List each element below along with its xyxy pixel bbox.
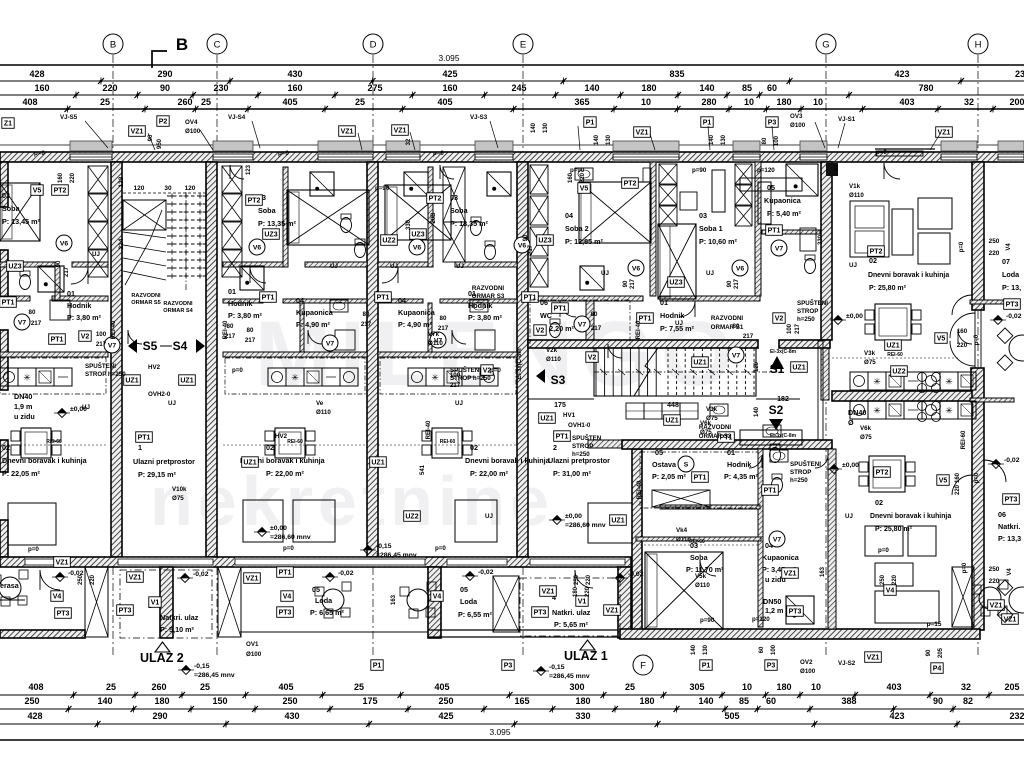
svg-text:VZ1: VZ1	[246, 575, 259, 582]
svg-text:✳: ✳	[431, 373, 439, 383]
svg-text:VZ1: VZ1	[990, 602, 1003, 609]
svg-text:ORMAR S2: ORMAR S2	[699, 433, 732, 440]
svg-text:Kupaonica: Kupaonica	[296, 308, 334, 317]
svg-text:ORMAR S5: ORMAR S5	[131, 300, 161, 306]
svg-text:160: 160	[287, 83, 302, 93]
svg-text:02: 02	[875, 498, 883, 507]
svg-text:32: 32	[406, 138, 412, 145]
svg-text:h=250: h=250	[572, 451, 590, 458]
svg-text:04: 04	[565, 211, 573, 220]
svg-text:VZ1: VZ1	[542, 588, 555, 595]
svg-text:V3k: V3k	[864, 350, 876, 357]
svg-text:10: 10	[641, 97, 651, 107]
svg-text:3.095: 3.095	[490, 727, 511, 737]
svg-text:430: 430	[284, 711, 299, 721]
svg-text:p=0: p=0	[959, 241, 965, 252]
svg-text:408: 408	[28, 682, 43, 692]
svg-text:220: 220	[585, 586, 591, 597]
svg-text:SPUŠTEN: SPUŠTEN	[572, 434, 602, 442]
svg-text:1: 1	[138, 443, 142, 452]
svg-text:25: 25	[201, 97, 211, 107]
svg-text:430: 430	[287, 69, 302, 79]
svg-text:V4: V4	[886, 587, 895, 594]
svg-text:S: S	[684, 461, 689, 468]
svg-text:220: 220	[102, 83, 117, 93]
svg-text:405: 405	[434, 682, 449, 692]
svg-text:423: 423	[894, 69, 909, 79]
svg-text:90: 90	[523, 234, 529, 241]
svg-text:230: 230	[213, 83, 228, 93]
svg-text:±0,00: ±0,00	[565, 513, 582, 520]
svg-text:403: 403	[899, 97, 914, 107]
svg-text:P: 22,00 m²: P: 22,00 m²	[470, 469, 509, 478]
svg-text:180: 180	[573, 586, 579, 597]
svg-text:06: 06	[998, 510, 1006, 519]
svg-text:PT3: PT3	[534, 609, 547, 616]
svg-text:p=120: p=120	[752, 616, 770, 623]
svg-text:Soba 2: Soba 2	[565, 224, 589, 233]
svg-text:130: 130	[721, 134, 727, 145]
svg-text:RAZVODNI: RAZVODNI	[472, 285, 505, 292]
svg-text:UJ: UJ	[92, 251, 100, 258]
svg-text:180: 180	[641, 83, 656, 93]
svg-text:p=0: p=0	[34, 150, 45, 157]
svg-text:-0,02: -0,02	[338, 570, 354, 577]
svg-text:PT2: PT2	[429, 195, 442, 202]
svg-text:DN40: DN40	[848, 408, 866, 417]
svg-text:220: 220	[892, 574, 898, 585]
svg-text:10: 10	[742, 682, 752, 692]
svg-text:10: 10	[811, 682, 821, 692]
svg-text:Hodnik: Hodnik	[228, 299, 252, 308]
svg-text:25: 25	[355, 97, 365, 107]
svg-text:REI-40: REI-40	[111, 320, 117, 339]
svg-text:Ve: Ve	[316, 400, 324, 407]
svg-text:V6: V6	[253, 244, 262, 251]
svg-text:3.095: 3.095	[439, 53, 460, 63]
svg-text:Ostava: Ostava	[652, 460, 677, 469]
svg-text:VJ-S5: VJ-S5	[60, 114, 78, 121]
svg-text:120: 120	[754, 361, 760, 372]
svg-text:03: 03	[699, 211, 707, 220]
svg-text:217: 217	[245, 337, 256, 344]
svg-text:V6: V6	[413, 244, 422, 251]
svg-text:p=0: p=0	[283, 545, 294, 552]
svg-text:=286,60 mnv: =286,60 mnv	[270, 534, 311, 541]
svg-text:ORMAR S4: ORMAR S4	[163, 308, 193, 314]
svg-text:100: 100	[787, 323, 793, 334]
svg-text:UZ1: UZ1	[540, 415, 553, 422]
svg-text:±0,00: ±0,00	[270, 525, 287, 532]
svg-text:Ø110: Ø110	[695, 582, 710, 589]
svg-text:-0,02: -0,02	[1006, 313, 1022, 320]
svg-text:V3k: V3k	[706, 406, 718, 413]
svg-text:100: 100	[96, 331, 107, 338]
svg-text:RAZVODNI: RAZVODNI	[163, 301, 193, 307]
svg-text:217: 217	[96, 341, 107, 348]
svg-text:S5: S5	[143, 339, 158, 353]
svg-text:ORMAR S3: ORMAR S3	[472, 293, 505, 300]
svg-text:El-3x(C-8m: El-3x(C-8m	[770, 433, 797, 439]
svg-text:Ø75: Ø75	[860, 434, 872, 441]
svg-text:RAZVODNI: RAZVODNI	[131, 293, 161, 299]
svg-text:P: 5,10 m²: P: 5,10 m²	[160, 625, 195, 634]
svg-text:Ø: Ø	[848, 418, 854, 427]
svg-text:VZ1: VZ1	[867, 654, 880, 661]
svg-text:25: 25	[200, 682, 210, 692]
svg-text:PT3: PT3	[1005, 496, 1018, 503]
svg-text:220: 220	[989, 250, 1000, 257]
svg-text:02: 02	[869, 256, 877, 265]
svg-text:V1k: V1k	[849, 183, 861, 190]
svg-text:330: 330	[406, 219, 412, 230]
svg-text:DN40: DN40	[14, 392, 32, 401]
svg-text:VJ-S1: VJ-S1	[838, 116, 856, 123]
svg-text:V2: V2	[775, 315, 784, 322]
svg-text:950: 950	[157, 138, 163, 149]
svg-text:Kupaonica: Kupaonica	[762, 553, 800, 562]
svg-text:260: 260	[177, 97, 192, 107]
svg-text:330: 330	[575, 711, 590, 721]
svg-text:UJ: UJ	[330, 263, 338, 270]
svg-text:p=0: p=0	[435, 545, 446, 552]
svg-text:STROP: STROP	[797, 308, 818, 315]
svg-text:VZ1: VZ1	[394, 127, 407, 134]
svg-text:HV2: HV2	[275, 433, 288, 440]
svg-text:275: 275	[367, 83, 382, 93]
svg-text:Kupaonica: Kupaonica	[398, 308, 436, 317]
svg-text:Ø75: Ø75	[864, 359, 876, 366]
svg-text:✳: ✳	[291, 373, 299, 383]
svg-text:✳: ✳	[945, 406, 953, 416]
svg-text:220: 220	[586, 574, 592, 585]
svg-text:PT1: PT1	[764, 487, 777, 494]
svg-text:1,9 m: 1,9 m	[14, 402, 32, 411]
svg-text:Dnevni boravak i kuhinja: Dnevni boravak i kuhinja	[868, 272, 949, 279]
svg-text:V4: V4	[1006, 243, 1012, 251]
svg-text:Ø110: Ø110	[316, 409, 331, 416]
svg-text:V6: V6	[632, 265, 641, 272]
svg-text:UZ1: UZ1	[886, 342, 899, 349]
svg-text:V4: V4	[433, 593, 442, 600]
svg-text:REI-40: REI-40	[637, 480, 643, 499]
svg-text:UJ: UJ	[390, 263, 398, 270]
svg-text:UZ1: UZ1	[665, 417, 678, 424]
svg-text:V2: V2	[588, 354, 597, 361]
svg-text:PT1: PT1	[2, 299, 15, 306]
svg-text:p=0: p=0	[232, 367, 243, 374]
svg-text:205: 205	[938, 647, 944, 658]
svg-text:P2: P2	[159, 118, 168, 125]
svg-text:Natkri.: Natkri.	[998, 522, 1020, 531]
svg-text:OV1: OV1	[246, 641, 259, 648]
svg-text:RAZVODNI: RAZVODNI	[711, 315, 744, 322]
svg-text:P: 3,80 m²: P: 3,80 m²	[67, 313, 102, 322]
svg-text:=286,45 mnv: =286,45 mnv	[549, 673, 590, 680]
svg-text:UJ: UJ	[849, 262, 857, 269]
svg-text:UZ2: UZ2	[405, 513, 418, 520]
svg-text:423: 423	[889, 711, 904, 721]
svg-text:260: 260	[151, 682, 166, 692]
svg-text:25: 25	[625, 682, 635, 692]
svg-text:140: 140	[754, 406, 760, 417]
svg-text:-0,15: -0,15	[376, 543, 392, 550]
svg-text:780: 780	[918, 83, 933, 93]
svg-text:365: 365	[574, 97, 589, 107]
svg-text:Ø100: Ø100	[790, 122, 806, 129]
svg-text:10: 10	[813, 97, 823, 107]
svg-text:V6: V6	[518, 242, 527, 249]
svg-text:STROP: STROP	[790, 469, 811, 476]
svg-text:S2: S2	[769, 403, 784, 417]
svg-text:Dnevni boravak i kuhinja: Dnevni boravak i kuhinja	[465, 456, 551, 465]
svg-text:p=0: p=0	[278, 150, 289, 157]
svg-text:PT1: PT1	[694, 474, 707, 481]
svg-text:175: 175	[362, 696, 377, 706]
svg-text:REI-60: REI-60	[287, 439, 303, 445]
svg-text:80: 80	[227, 323, 234, 330]
svg-text:OVH2-0: OVH2-0	[148, 391, 171, 398]
svg-text:-0,02: -0,02	[628, 571, 644, 578]
svg-text:p=0: p=0	[490, 367, 501, 374]
svg-text:UZ2: UZ2	[892, 368, 905, 375]
svg-text:PT3: PT3	[57, 610, 70, 617]
svg-text:REI-60: REI-60	[46, 439, 62, 445]
svg-text:p=0: p=0	[974, 334, 980, 345]
svg-text:80: 80	[440, 315, 447, 322]
svg-text:25: 25	[354, 682, 364, 692]
svg-text:C: C	[214, 39, 221, 50]
svg-text:B: B	[176, 35, 188, 54]
svg-text:PT3: PT3	[279, 609, 292, 616]
svg-text:P: 29,15 m²: P: 29,15 m²	[138, 470, 177, 479]
svg-text:PT2: PT2	[248, 197, 261, 204]
svg-text:VJ-S2: VJ-S2	[838, 660, 856, 667]
svg-text:Natkri. ulaz: Natkri. ulaz	[160, 613, 199, 622]
svg-text:80: 80	[591, 311, 598, 318]
svg-text:04: 04	[296, 296, 304, 305]
svg-text:P: 4,35 m²: P: 4,35 m²	[724, 472, 759, 481]
svg-text:180: 180	[776, 97, 791, 107]
svg-text:erasa: erasa	[0, 581, 20, 590]
svg-text:UZ3: UZ3	[538, 237, 551, 244]
svg-text:V5: V5	[937, 335, 946, 342]
svg-text:REI-40: REI-40	[636, 320, 642, 339]
svg-text:P: 3,80 m²: P: 3,80 m²	[468, 313, 503, 322]
svg-text:Ø110: Ø110	[849, 192, 864, 199]
svg-text:Dnevni boravak i kuhinja: Dnevni boravak i kuhinja	[2, 456, 88, 465]
svg-text:V7: V7	[773, 536, 782, 543]
svg-text:UJ: UJ	[456, 263, 464, 270]
svg-text:Soba: Soba	[2, 204, 21, 213]
svg-text:UZ2: UZ2	[382, 237, 395, 244]
svg-text:388: 388	[841, 696, 856, 706]
svg-text:217: 217	[795, 323, 801, 334]
svg-text:P: 5,40 m²: P: 5,40 m²	[767, 209, 802, 218]
svg-text:P: 13,3: P: 13,3	[998, 534, 1021, 543]
svg-text:Hodnik: Hodnik	[727, 460, 751, 469]
svg-text:140: 140	[531, 122, 537, 133]
svg-text:V2: V2	[536, 327, 545, 334]
svg-text:160: 160	[955, 472, 961, 483]
svg-text:S4: S4	[173, 339, 188, 353]
svg-text:V7: V7	[18, 319, 27, 326]
svg-text:UJ: UJ	[675, 320, 683, 327]
svg-text:UJ: UJ	[845, 513, 853, 520]
svg-text:217: 217	[450, 382, 461, 389]
svg-text:WC: WC	[540, 311, 552, 320]
svg-text:85: 85	[739, 696, 749, 706]
svg-text:217: 217	[630, 278, 636, 289]
svg-text:PT1: PT1	[554, 305, 567, 312]
svg-text:P4: P4	[933, 665, 942, 672]
svg-text:P: 13,35 m²: P: 13,35 m²	[450, 219, 489, 228]
svg-text:123: 123	[118, 176, 125, 187]
svg-text:160: 160	[34, 83, 49, 93]
svg-text:p=90: p=90	[375, 185, 390, 192]
svg-text:P: 5,65 m²: P: 5,65 m²	[554, 620, 589, 629]
svg-text:REI-60: REI-60	[887, 352, 903, 358]
svg-text:217: 217	[734, 278, 740, 289]
svg-text:25: 25	[100, 97, 110, 107]
svg-text:PT3: PT3	[1006, 301, 1019, 308]
svg-text:-0,15: -0,15	[549, 664, 565, 671]
svg-text:P: 6,55 m²: P: 6,55 m²	[458, 610, 493, 619]
svg-text:HV2: HV2	[148, 364, 161, 371]
svg-text:RAZVODNI: RAZVODNI	[699, 424, 732, 431]
svg-text:217: 217	[361, 321, 372, 328]
svg-text:80: 80	[762, 137, 768, 144]
svg-text:VZ1: VZ1	[341, 128, 354, 135]
svg-text:-0,15: -0,15	[194, 663, 210, 670]
svg-text:05: 05	[312, 585, 320, 594]
svg-text:Hodnik: Hodnik	[660, 311, 684, 320]
svg-text:Soba: Soba	[690, 553, 709, 562]
svg-text:90: 90	[926, 649, 932, 656]
svg-text:330: 330	[818, 234, 824, 245]
svg-text:220: 220	[70, 172, 76, 183]
svg-text:180: 180	[575, 696, 590, 706]
svg-text:p=0: p=0	[962, 562, 968, 573]
svg-text:V6k: V6k	[860, 425, 872, 432]
svg-text:07: 07	[1002, 257, 1010, 266]
svg-text:H: H	[975, 39, 982, 50]
svg-text:250: 250	[989, 566, 1000, 573]
svg-text:30: 30	[164, 185, 172, 192]
svg-text:PT1: PT1	[279, 569, 292, 576]
svg-text:403: 403	[886, 682, 901, 692]
svg-text:PT1: PT1	[556, 433, 569, 440]
svg-text:VZ1: VZ1	[636, 129, 649, 136]
svg-text:180: 180	[776, 682, 791, 692]
svg-text:80: 80	[363, 311, 370, 318]
svg-text:P1: P1	[703, 119, 712, 126]
svg-text:UZ1: UZ1	[371, 459, 384, 466]
svg-text:h=250: h=250	[790, 477, 808, 484]
svg-text:p=0: p=0	[878, 547, 889, 554]
svg-text:S1: S1	[770, 362, 785, 376]
svg-text:P: 4,90 m²: P: 4,90 m²	[296, 320, 331, 329]
svg-text:V1: V1	[151, 599, 160, 606]
svg-text:163: 163	[391, 594, 397, 605]
svg-text:P3: P3	[767, 662, 776, 669]
svg-text:23: 23	[1015, 69, 1024, 79]
svg-text:217: 217	[528, 244, 534, 255]
svg-text:405: 405	[437, 97, 452, 107]
svg-text:V6: V6	[736, 265, 745, 272]
svg-text:PT3: PT3	[789, 608, 802, 615]
svg-text:140: 140	[709, 134, 715, 145]
svg-text:VZ1: VZ1	[131, 128, 144, 135]
svg-text:VZ1: VZ1	[129, 574, 142, 581]
svg-text:20B: 20B	[431, 212, 437, 224]
svg-text:p=90: p=90	[700, 617, 715, 624]
svg-text:541: 541	[420, 464, 426, 475]
svg-text:280: 280	[701, 97, 716, 107]
svg-text:VZ1: VZ1	[784, 570, 797, 577]
svg-text:250: 250	[282, 696, 297, 706]
svg-text:217: 217	[225, 333, 236, 340]
svg-text:Loda: Loda	[460, 597, 478, 606]
svg-text:STROP: STROP	[572, 443, 593, 450]
svg-text:Ø100: Ø100	[185, 128, 201, 135]
svg-text:217: 217	[64, 266, 70, 277]
svg-text:Ø110: Ø110	[428, 340, 443, 347]
svg-text:V4: V4	[1007, 568, 1013, 576]
svg-text:25: 25	[106, 682, 116, 692]
svg-text:Ulazni pretprostor: Ulazni pretprostor	[133, 457, 195, 466]
svg-text:El-3x(C-8m: El-3x(C-8m	[770, 349, 797, 355]
svg-text:✳: ✳	[873, 406, 881, 416]
svg-text:OV3: OV3	[790, 113, 803, 120]
svg-text:32: 32	[964, 97, 974, 107]
svg-text:03: 03	[450, 193, 458, 202]
svg-text:90: 90	[148, 134, 154, 141]
svg-text:UZ1: UZ1	[180, 377, 193, 384]
svg-text:120: 120	[134, 185, 145, 192]
svg-text:V7: V7	[326, 340, 335, 347]
svg-text:P: 25,80 m²: P: 25,80 m²	[869, 285, 907, 292]
svg-text:150: 150	[212, 696, 227, 706]
svg-text:P: 13,: P: 13,	[1002, 283, 1021, 292]
svg-text:SPUŠTENI: SPUŠTENI	[85, 362, 116, 370]
svg-text:01: 01	[228, 287, 236, 296]
svg-text:505: 505	[724, 711, 739, 721]
svg-text:p=0: p=0	[974, 472, 980, 483]
svg-text:P: 10,60 m²: P: 10,60 m²	[699, 237, 738, 246]
svg-text:217: 217	[591, 325, 602, 332]
svg-text:UZ1: UZ1	[243, 459, 256, 466]
svg-text:60: 60	[767, 83, 777, 93]
svg-text:Z1: Z1	[4, 120, 12, 127]
svg-text:D: D	[370, 39, 377, 50]
svg-text:B: B	[110, 39, 116, 50]
svg-text:32: 32	[961, 682, 971, 692]
svg-text:250: 250	[438, 696, 453, 706]
svg-text:OV4: OV4	[185, 119, 198, 126]
svg-text:Soba: Soba	[258, 206, 277, 215]
svg-text:100: 100	[450, 372, 461, 379]
svg-text:UZ3: UZ3	[8, 263, 21, 270]
svg-text:V5k: V5k	[695, 573, 707, 580]
svg-text:UZ3: UZ3	[411, 231, 424, 238]
svg-text:245: 245	[511, 83, 526, 93]
svg-text:Vk4: Vk4	[676, 527, 688, 534]
svg-text:VJ-S3: VJ-S3	[470, 114, 488, 121]
svg-text:V7k: V7k	[428, 331, 440, 338]
svg-text:El-3x(C-8m: El-3x(C-8m	[517, 348, 523, 379]
svg-text:200: 200	[1009, 97, 1024, 107]
